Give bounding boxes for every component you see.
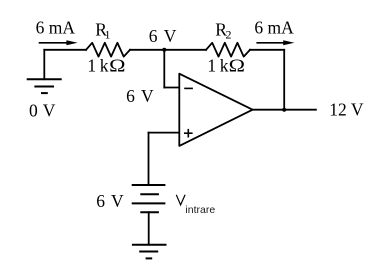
svg-text:V: V — [141, 86, 154, 106]
svg-text:6: 6 — [149, 26, 158, 46]
svg-text:V: V — [164, 26, 177, 46]
svg-text:1: 1 — [207, 56, 216, 76]
svg-text:6: 6 — [96, 191, 105, 211]
svg-text:Ω: Ω — [229, 57, 245, 76]
svg-text:1: 1 — [87, 56, 96, 76]
svg-text:k: k — [220, 56, 229, 76]
svg-text:Ω: Ω — [109, 57, 125, 76]
svg-text:intrare: intrare — [185, 204, 215, 216]
svg-text:2: 2 — [226, 28, 232, 42]
svg-text:6 mA: 6 mA — [254, 18, 294, 38]
svg-text:12 V: 12 V — [329, 99, 364, 119]
svg-text:1: 1 — [105, 28, 111, 42]
svg-text:V: V — [111, 191, 124, 211]
svg-text:k: k — [100, 56, 109, 76]
svg-text:6 mA: 6 mA — [36, 18, 76, 38]
svg-text:6: 6 — [126, 86, 135, 106]
svg-text:V: V — [43, 101, 56, 121]
svg-text:0: 0 — [29, 101, 38, 121]
